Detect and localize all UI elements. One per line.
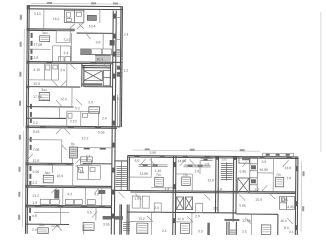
svg-text:3.2: 3.2: [33, 121, 38, 125]
svg-text:Зал: Зал: [44, 171, 50, 175]
svg-text:Зал: Зал: [41, 88, 47, 92]
svg-text:5.85: 5.85: [240, 170, 247, 174]
svg-text:2.6: 2.6: [60, 68, 65, 72]
svg-text:2.5: 2.5: [242, 230, 247, 234]
svg-text:Пл: Пл: [71, 142, 75, 146]
svg-text:Пл: Пл: [156, 173, 160, 177]
svg-text:17.08: 17.08: [33, 95, 42, 99]
svg-text:14.86: 14.86: [178, 159, 187, 163]
svg-text:15.9: 15.9: [33, 82, 40, 86]
svg-text:Пл: Пл: [183, 173, 187, 177]
svg-text:16.9: 16.9: [56, 174, 63, 178]
svg-text:Пл: Пл: [276, 173, 280, 177]
svg-text:3.9: 3.9: [205, 162, 210, 166]
svg-text:5.5: 5.5: [87, 210, 92, 214]
svg-text:3.0: 3.0: [94, 192, 99, 196]
svg-text:15.9: 15.9: [255, 198, 262, 202]
svg-text:16.2: 16.2: [53, 17, 60, 21]
svg-text:1.4: 1.4: [164, 187, 169, 191]
svg-text:2.2: 2.2: [32, 181, 37, 185]
svg-text:16.3: 16.3: [280, 219, 287, 223]
svg-text:10.4: 10.4: [89, 24, 96, 28]
svg-text:2.2: 2.2: [254, 188, 259, 192]
svg-text:2.0: 2.0: [195, 214, 200, 218]
svg-text:Зал: Зал: [39, 223, 45, 227]
svg-text:13.2: 13.2: [138, 217, 145, 221]
svg-text:17.08: 17.08: [34, 43, 43, 47]
svg-text:2.4: 2.4: [124, 33, 129, 37]
svg-text:5.9: 5.9: [117, 97, 122, 101]
svg-text:13.8: 13.8: [285, 166, 292, 170]
svg-text:9.8: 9.8: [96, 40, 101, 44]
svg-text:1.9: 1.9: [32, 201, 37, 205]
svg-text:2.6: 2.6: [286, 176, 291, 180]
svg-text:5.06: 5.06: [32, 170, 39, 174]
svg-text:1.9: 1.9: [79, 170, 84, 174]
svg-text:4.10: 4.10: [33, 68, 40, 72]
svg-text:12.2: 12.2: [82, 136, 89, 140]
svg-text:4.8: 4.8: [32, 214, 37, 218]
svg-text:2.4: 2.4: [102, 116, 107, 120]
svg-text:Зал: Зал: [42, 31, 48, 35]
svg-text:2.0: 2.0: [154, 206, 159, 210]
svg-text:16.86: 16.86: [260, 168, 269, 172]
svg-text:5.6: 5.6: [222, 158, 227, 162]
svg-text:2.1: 2.1: [162, 229, 167, 233]
svg-text:5.0: 5.0: [217, 187, 222, 191]
svg-text:3.10: 3.10: [34, 12, 41, 16]
svg-text:3.9: 3.9: [88, 100, 93, 104]
svg-text:3.3: 3.3: [86, 154, 91, 158]
svg-text:3.3: 3.3: [198, 229, 203, 233]
svg-text:1.2: 1.2: [123, 69, 128, 73]
svg-text:1.95: 1.95: [281, 198, 288, 202]
svg-text:3.05: 3.05: [103, 222, 110, 226]
svg-text:5.2: 5.2: [75, 106, 80, 110]
svg-text:2.8: 2.8: [33, 56, 38, 60]
svg-text:2.0: 2.0: [213, 206, 218, 210]
svg-text:4.45: 4.45: [287, 205, 294, 209]
svg-text:7.08: 7.08: [33, 148, 40, 152]
svg-text:5.9: 5.9: [262, 160, 267, 164]
svg-text:12.8: 12.8: [33, 159, 40, 163]
svg-text:12.86: 12.86: [242, 219, 251, 223]
svg-text:5.06: 5.06: [98, 130, 105, 134]
svg-text:3.4: 3.4: [64, 51, 69, 55]
svg-text:8.45: 8.45: [33, 130, 40, 134]
svg-text:5.07: 5.07: [64, 38, 71, 42]
svg-text:2.10: 2.10: [70, 119, 77, 123]
svg-text:9.3: 9.3: [67, 192, 72, 196]
svg-text:3.1: 3.1: [289, 230, 294, 234]
svg-text:2.6: 2.6: [195, 169, 200, 173]
svg-text:2.4: 2.4: [32, 228, 37, 232]
svg-text:6.0: 6.0: [135, 159, 140, 163]
svg-text:13.86: 13.86: [139, 172, 148, 176]
svg-text:12.9: 12.9: [177, 217, 184, 221]
svg-text:5.85: 5.85: [150, 151, 157, 155]
svg-text:12.6: 12.6: [207, 178, 214, 182]
svg-text:5.06: 5.06: [239, 204, 246, 208]
svg-text:10.0: 10.0: [96, 57, 103, 61]
svg-text:13.2: 13.2: [32, 194, 39, 198]
svg-text:1.5: 1.5: [134, 197, 139, 201]
svg-text:12.86: 12.86: [51, 224, 60, 228]
svg-text:12.4: 12.4: [60, 97, 67, 101]
